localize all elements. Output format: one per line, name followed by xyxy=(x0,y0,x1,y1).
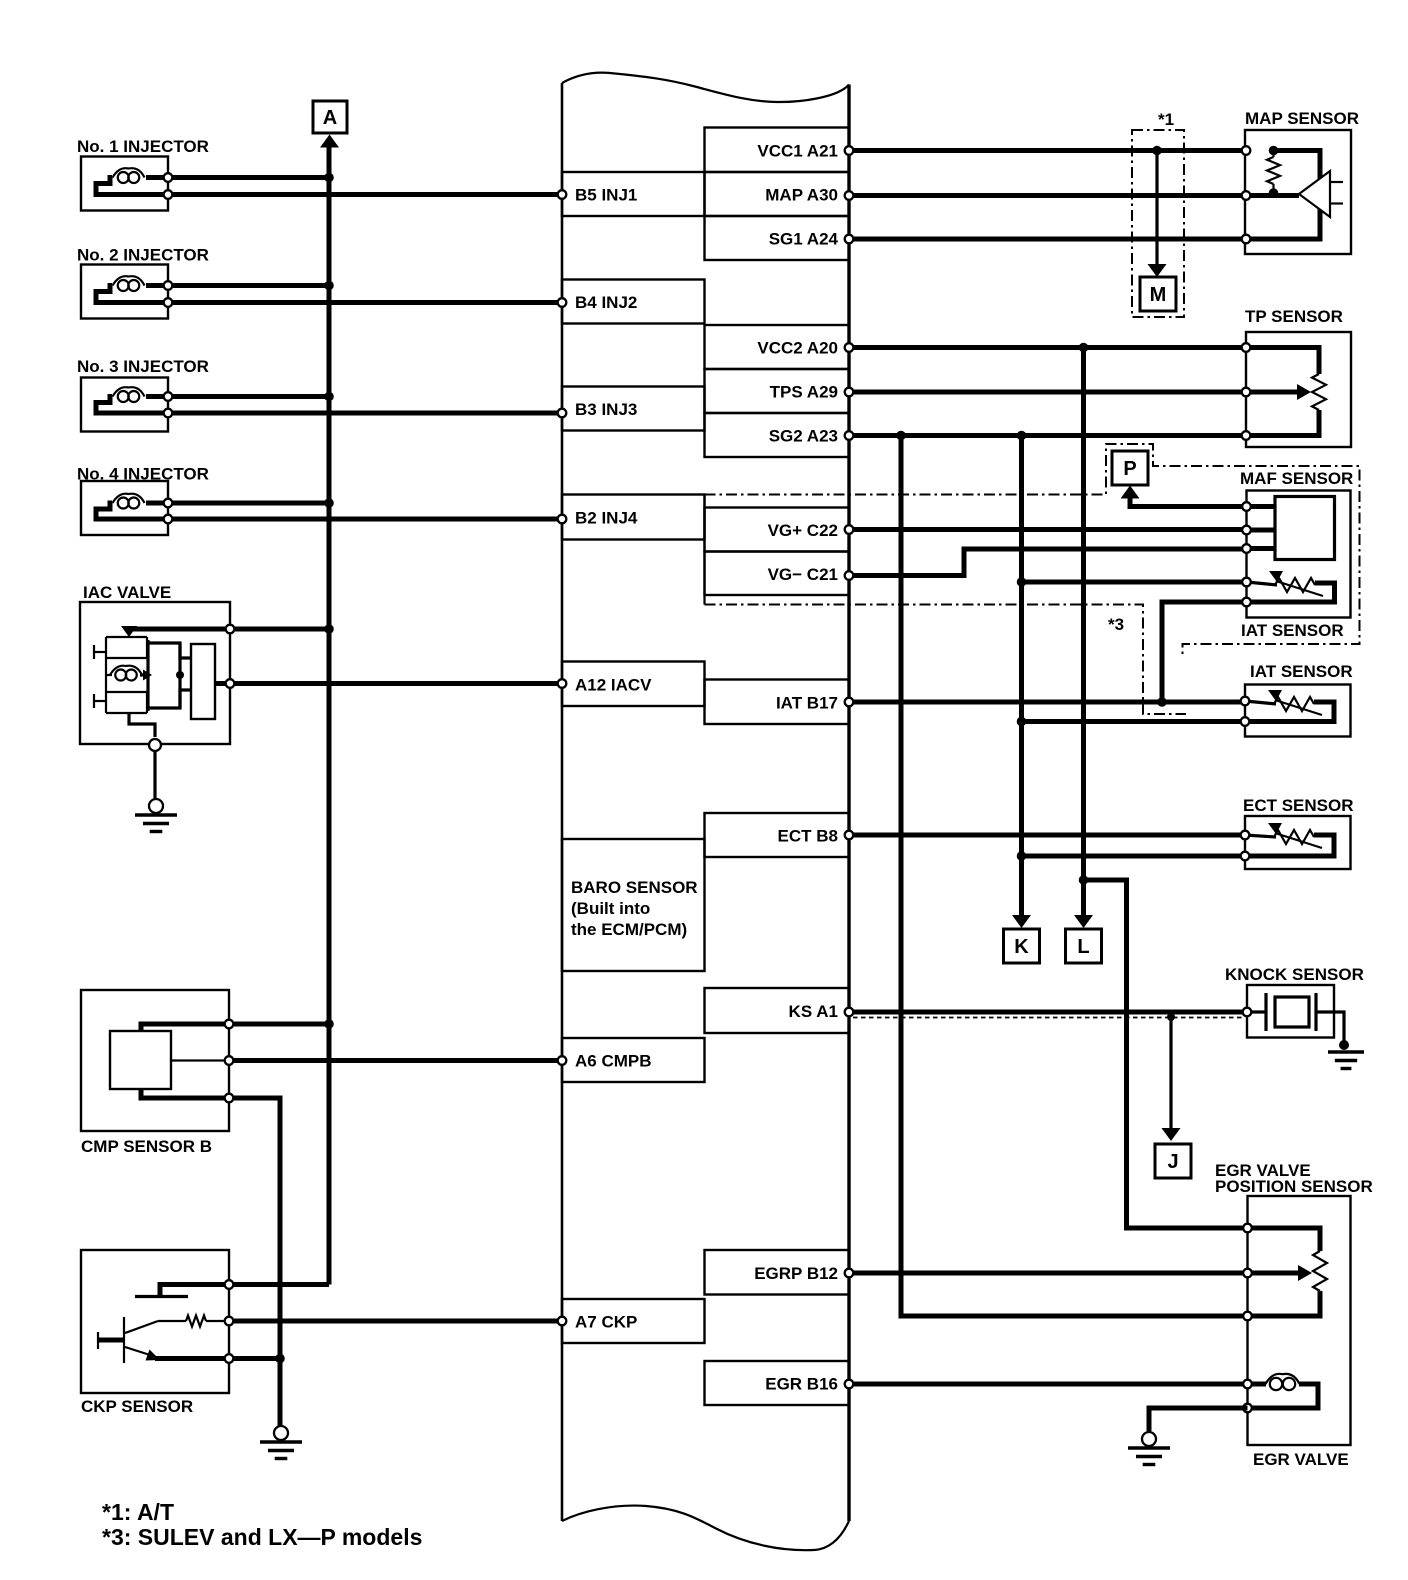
wire MAF IAT-out terminal down to IAT B17 wire xyxy=(1162,602,1246,702)
svg-text:MAF SENSOR: MAF SENSOR xyxy=(1240,469,1353,488)
svg-text:TPS A29: TPS A29 xyxy=(770,383,838,402)
wire IAC top terminal to bus xyxy=(235,627,329,632)
wire injector 3 top terminal to bus xyxy=(173,394,329,399)
wire IAT sensor return to SG2 bus xyxy=(1022,719,1247,724)
ECM pin box MAP A30 xyxy=(705,172,850,216)
svg-text:K: K xyxy=(1014,936,1029,958)
ECM pin box VCC1 A21 xyxy=(705,128,850,173)
footnote *1 xyxy=(102,1499,174,1525)
svg-text:MAP SENSOR: MAP SENSOR xyxy=(1245,109,1359,128)
TP sensor (potentiometer) with box and terminals xyxy=(1242,307,1351,447)
ground (IAC valve) xyxy=(135,799,177,832)
injector No.4 (coil) with box and terminals xyxy=(77,465,209,536)
junction dot CMP/CKP ground bus xyxy=(275,1354,285,1364)
MAP sensor with box, resistor, transducer and terminals xyxy=(1242,109,1359,254)
vertical bus VCC2 to L and EGR xyxy=(1081,348,1086,916)
wire EGRP B12 to EGR position sensor xyxy=(845,1269,1248,1278)
wire TPS A29 to TP sensor xyxy=(845,388,1246,397)
knock sensor (piezo) with box, terminal and ground xyxy=(1225,965,1364,1050)
svg-text:A12 IACV: A12 IACV xyxy=(575,675,652,694)
wire branch down to connector M xyxy=(1155,151,1158,265)
ECM pin box B3 INJ3 xyxy=(562,387,705,431)
vertical bus SG2 to EGR position sensor xyxy=(901,436,1248,1317)
junction dot VCC2 branch xyxy=(1079,343,1089,353)
injector No.2 (coil) with box and terminals xyxy=(77,246,209,319)
ECM pin box SG2 A23 xyxy=(705,413,850,457)
svg-text:No. 1 INJECTOR: No. 1 INJECTOR xyxy=(77,137,209,156)
vertical bus SG2 to IAT/ECT/K xyxy=(1019,436,1024,916)
wire CKP top terminal to bus bottom xyxy=(234,1282,329,1287)
label *3 xyxy=(1108,615,1124,634)
ground bus wire down xyxy=(278,1359,283,1426)
svg-text:B4 INJ2: B4 INJ2 xyxy=(575,293,637,312)
wire CKP middle terminal to ECM A7 CKP xyxy=(234,1317,566,1326)
injector No.3 (coil) with box and terminals xyxy=(77,357,209,432)
ECM pin box KS A1 xyxy=(705,988,850,1033)
svg-text:TP SENSOR: TP SENSOR xyxy=(1245,307,1343,326)
svg-text:VCC1 A21: VCC1 A21 xyxy=(757,141,838,160)
svg-text:*1: *1 xyxy=(1158,110,1174,129)
MAF sensor with box, hot-film element, built-in IAT thermistor and terminals xyxy=(1240,469,1353,618)
ECM pin box B5 INJ1 xyxy=(562,172,705,216)
arrow into connector A xyxy=(320,135,339,148)
svg-text:KNOCK SENSOR: KNOCK SENSOR xyxy=(1225,965,1364,984)
ground (knock sensor) xyxy=(1328,1052,1364,1069)
main bus wire from connector A down left side xyxy=(327,147,332,1285)
dash-dot *3 region bracket xyxy=(705,605,1187,715)
wire IAT B17 to IAT sensor xyxy=(845,698,1246,707)
wire SG2 A23 to TP sensor xyxy=(845,431,1246,440)
ground (EGR valve) xyxy=(1128,1432,1170,1465)
svg-text:SG1 A24: SG1 A24 xyxy=(769,230,839,249)
svg-text:IAT B17: IAT B17 xyxy=(776,693,838,712)
svg-text:*3: *3 xyxy=(1108,615,1124,634)
IAC valve with box, internal driver/coil and terminals xyxy=(80,583,234,751)
svg-text:EGRP B12: EGRP B12 xyxy=(754,1264,838,1283)
wire VG- C21 to MAF sensor xyxy=(845,549,1246,580)
svg-text:*1: A/T: *1: A/T xyxy=(102,1499,174,1525)
svg-text:VG− C21: VG− C21 xyxy=(768,565,838,584)
svg-text:IAT SENSOR: IAT SENSOR xyxy=(1241,621,1344,640)
ground (CKP/CMP) xyxy=(260,1426,302,1459)
ECM pin box SG1 A24 xyxy=(705,216,850,260)
shield dashed line along KS wire xyxy=(853,1017,1245,1019)
connector K box xyxy=(1004,929,1040,963)
wire EGR valve return to ground xyxy=(1149,1408,1248,1431)
arrow into connector P xyxy=(1121,486,1140,499)
connector M box xyxy=(1140,277,1176,311)
ECM/PCM connector strip right edge xyxy=(847,85,850,1522)
svg-text:VCC2 A20: VCC2 A20 xyxy=(757,339,838,358)
ECM strip bottom torn wavy edge xyxy=(562,1506,849,1551)
wire MAF Vs terminal to connector P xyxy=(1130,497,1246,507)
svg-text:A6 CMPB: A6 CMPB xyxy=(575,1052,652,1071)
svg-text:ECT SENSOR: ECT SENSOR xyxy=(1243,796,1354,815)
svg-text:EGR VALVE: EGR VALVE xyxy=(1253,1450,1349,1469)
EGR valve position sensor (potentiometer) with box and terminals xyxy=(1215,1161,1373,1445)
connector A box xyxy=(313,101,347,133)
injector No.1 (coil) with box and terminals xyxy=(77,137,209,211)
svg-text:*3: SULEV and LX—P models: *3: SULEV and LX—P models xyxy=(102,1524,422,1550)
junction dot VCC1/*1 branch xyxy=(1152,146,1162,156)
svg-text:KS A1: KS A1 xyxy=(789,1002,838,1021)
svg-text:B2 INJ4: B2 INJ4 xyxy=(575,509,638,528)
footnote *3 xyxy=(102,1524,422,1550)
svg-text:No. 3 INJECTOR: No. 3 INJECTOR xyxy=(77,357,209,376)
junction dot MAF thermistor tap xyxy=(1017,577,1027,587)
wire IAC bottom terminal to ECM A12 IACV xyxy=(235,679,566,688)
junction dot shield to J xyxy=(1167,1013,1175,1021)
arrow into connector M xyxy=(1148,264,1167,277)
junction dot VCC2/EGR branch xyxy=(1079,875,1089,885)
svg-text:J: J xyxy=(1167,1151,1178,1173)
wire CKP bottom terminal to ground bus xyxy=(234,1356,280,1361)
arrow into connector K xyxy=(1012,915,1031,928)
junction dot MAF/IAT B17 xyxy=(1157,697,1167,707)
wire injector 1 bottom terminal to ECM xyxy=(173,190,566,199)
IAT sensor (thermistor) with box and terminals xyxy=(1241,662,1353,737)
wire MAF thermistor terminal to SG2 bus xyxy=(1022,580,1247,585)
wire injector 4 top terminal to bus xyxy=(173,501,329,506)
junction dot ECT tap xyxy=(1017,851,1027,861)
wire ECT B8 to ECT sensor xyxy=(845,831,1246,840)
svg-text:IAT SENSOR: IAT SENSOR xyxy=(1250,662,1353,681)
wire injector 1 top terminal to bus xyxy=(173,175,329,180)
wire VCC1 A21 to MAP sensor xyxy=(845,146,1246,155)
wire injector 3 bottom terminal to ECM xyxy=(173,409,566,418)
ECT sensor (thermistor) with box and terminals xyxy=(1241,796,1354,869)
wire KS A1 to knock sensor xyxy=(845,1008,1247,1017)
svg-text:CKP SENSOR: CKP SENSOR xyxy=(81,1397,193,1416)
ECM pin box IAT B17 xyxy=(705,680,850,725)
svg-text:BARO SENSOR: BARO SENSOR xyxy=(571,878,698,897)
svg-text:MAP A30: MAP A30 xyxy=(765,186,838,205)
ECM/PCM connector strip left edge xyxy=(561,83,564,1521)
ECM pin box VCC2 A20 xyxy=(705,325,850,369)
ECM strip top torn wavy edge xyxy=(562,73,849,102)
bus junction dots xyxy=(324,173,334,1029)
junction dot IAT tap xyxy=(1017,717,1027,727)
ECM pin box B4 INJ2 xyxy=(562,280,705,324)
junction dots SG2 branches xyxy=(896,431,1026,441)
arrow into connector J xyxy=(1162,1128,1181,1141)
svg-text:A: A xyxy=(323,107,337,129)
svg-text:the ECM/PCM): the ECM/PCM) xyxy=(571,920,687,939)
EGR valve (solenoid coil) with terminals xyxy=(1243,1374,1349,1469)
svg-text:B5 INJ1: B5 INJ1 xyxy=(575,186,637,205)
ECM pin box EGRP B12 xyxy=(705,1250,850,1295)
ECM pin box TPS A29 xyxy=(705,369,850,413)
wire injector 2 bottom terminal to ECM xyxy=(173,298,566,307)
svg-text:POSITION SENSOR: POSITION SENSOR xyxy=(1215,1177,1373,1196)
svg-text:P: P xyxy=(1123,458,1136,480)
label IAT SENSOR (inside MAF) xyxy=(1241,621,1344,640)
connector P box xyxy=(1112,451,1148,485)
svg-text:ECT B8: ECT B8 xyxy=(778,827,838,846)
*1 dash-dot box xyxy=(1132,130,1184,317)
svg-text:CMP SENSOR B: CMP SENSOR B xyxy=(81,1137,212,1156)
CMP sensor B with box, hall element and terminals xyxy=(81,990,233,1156)
connector L box xyxy=(1066,929,1102,963)
wire CMP middle terminal to ECM A6 CMPB xyxy=(234,1056,566,1065)
label *1 xyxy=(1158,110,1174,129)
wire shield down to connector J xyxy=(1169,1017,1172,1128)
ECM pin box ECT B8 xyxy=(705,813,850,857)
solid connector edge at VG boxes xyxy=(703,495,705,605)
svg-text:VG+ C22: VG+ C22 xyxy=(768,521,838,540)
wire injector 4 bottom terminal to ECM xyxy=(173,515,566,524)
connector J box xyxy=(1155,1144,1191,1178)
BARO SENSOR (built into ECM/PCM) box xyxy=(562,839,705,971)
dash-dot A/T region around P and MAF sensor xyxy=(705,444,1360,657)
ECM pin box EGR B16 xyxy=(705,1361,850,1405)
ECM pin box A6 CMPB xyxy=(562,1038,705,1082)
svg-text:IAC VALVE: IAC VALVE xyxy=(83,583,171,602)
wire EGR B16 to EGR valve xyxy=(845,1380,1248,1389)
svg-text:B3 INJ3: B3 INJ3 xyxy=(575,400,637,419)
svg-text:(Built into: (Built into xyxy=(571,899,650,918)
wire VCC2 branch to EGR position sensor xyxy=(1084,880,1248,1228)
svg-text:EGR B16: EGR B16 xyxy=(765,1375,838,1394)
svg-text:L: L xyxy=(1077,936,1089,958)
svg-text:M: M xyxy=(1150,284,1167,306)
svg-text:A7 CKP: A7 CKP xyxy=(575,1313,637,1332)
svg-text:No. 2 INJECTOR: No. 2 INJECTOR xyxy=(77,246,209,265)
arrow into connector L xyxy=(1074,915,1093,928)
wire injector 2 top terminal to bus xyxy=(173,283,329,288)
wire VCC2 A20 to TP sensor xyxy=(845,343,1246,352)
ECM pin box A7 CKP xyxy=(562,1299,705,1343)
ECM pin box B2 INJ4 xyxy=(562,495,705,540)
wire ECT sensor return to SG2 bus xyxy=(1022,854,1247,859)
svg-text:SG2 A23: SG2 A23 xyxy=(769,427,838,446)
IAC ground wire xyxy=(153,752,156,800)
ECM pin box VG&#43; C22 xyxy=(705,508,850,552)
ECM pin box A12 IACV xyxy=(562,662,705,707)
wire CMP bottom terminal to ground bus xyxy=(234,1098,280,1359)
wire CMP top terminal to bus xyxy=(234,1022,329,1027)
wire MAP A30 to MAP sensor xyxy=(845,191,1246,200)
CKP sensor with box, pickup coil and terminals xyxy=(81,1250,233,1416)
wire VG+ C22 to MAF sensor xyxy=(845,525,1246,534)
wire SG1 A24 to MAP sensor xyxy=(845,235,1246,244)
ECM pin box VG&#8722; C21 xyxy=(705,552,850,596)
